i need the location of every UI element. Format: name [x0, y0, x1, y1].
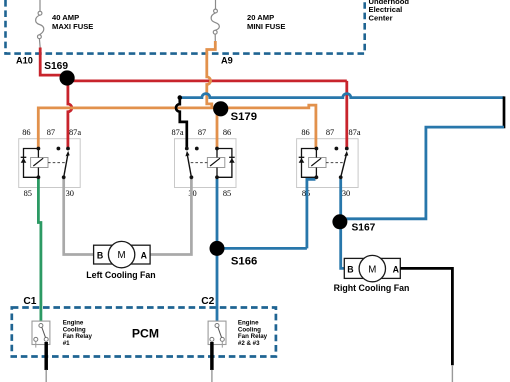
wire gray continuation bottom right [451, 365, 453, 382]
relay K1 box [19, 139, 80, 188]
wire orange bus relay K1 86 to relay K3 86 [38, 105, 316, 148]
svg-text:S166: S166 [231, 255, 257, 267]
splice S166 [210, 241, 225, 256]
wire gray continuation bottom left [45, 370, 47, 382]
relay K2 pin dots [185, 147, 219, 180]
relay K3 coil [309, 149, 326, 178]
svg-text:87: 87 [198, 128, 206, 137]
svg-text:86: 86 [22, 128, 30, 137]
relay K2 diode [217, 149, 235, 178]
svg-text:MINI FUSE: MINI FUSE [247, 22, 285, 31]
wire red down to relay K3 pin 87a [345, 81, 348, 149]
svg-text:20 AMP: 20 AMP [247, 13, 274, 22]
wire black link at right edge [503, 96, 506, 128]
svg-text:86: 86 [223, 128, 231, 137]
wire orange from fuse F2 to S179 (hop over red bus) [207, 41, 216, 108]
svg-text:C2: C2 [201, 296, 214, 307]
svg-text:#1: #1 [63, 340, 70, 347]
splice S169 [60, 70, 75, 85]
svg-text:Center: Center [369, 14, 393, 23]
svg-text:87a: 87a [348, 128, 360, 137]
svg-text:87: 87 [47, 128, 55, 137]
wire red bus S169 to right [67, 80, 347, 83]
wire blue relay K2 pin 85 through S166 to PCM C2 [216, 179, 219, 324]
relay K3 pin dots [315, 147, 349, 180]
wire black PCM C2 output to ground [210, 342, 214, 370]
svg-text:Left Cooling Fan: Left Cooling Fan [86, 270, 155, 280]
svg-text:Right Cooling Fan: Right Cooling Fan [334, 283, 410, 293]
svg-text:B: B [97, 250, 103, 260]
junction dot on blue bus [178, 95, 183, 100]
wire blue S166 horizontal [217, 247, 307, 250]
fuse F2 20 AMP MINI FUSE [211, 0, 219, 42]
relay K2 pin labels [171, 128, 231, 198]
underhood electrical center dashed enclosure [6, 0, 365, 54]
svg-text:C1: C1 [23, 296, 36, 307]
wire black from blue bus to relay K2 pin 87a (hop over orange) [176, 98, 187, 149]
wire orange drop to relay K2 pin 86 [216, 108, 219, 149]
value label 20 AMP MINI FUSE [247, 13, 285, 31]
svg-text:M: M [117, 250, 125, 261]
relay K2 coil [207, 149, 224, 178]
wire black right fan A to ground drop [400, 268, 452, 365]
value label 40 AMP MAXI FUSE [52, 13, 93, 31]
svg-text:S179: S179 [231, 111, 257, 123]
svg-text:40 AMP: 40 AMP [52, 13, 79, 22]
svg-text:87a: 87a [69, 128, 81, 137]
wire red from fuse F1 to S169 [40, 48, 66, 76]
label Engine Cooling Fan Relay #2 & #3 [238, 319, 268, 347]
svg-text:86: 86 [301, 128, 309, 137]
wire blue relay K3 pin 30 through S167 to right fan B [341, 179, 345, 268]
svg-text:85: 85 [223, 189, 231, 198]
svg-text:87: 87 [326, 128, 334, 137]
wire gray continuation bottom middle [211, 370, 213, 382]
PCM connector C1 (engine cooling fan relay 1 driver) [32, 321, 50, 348]
svg-text:87a: 87a [171, 128, 183, 137]
svg-text:85: 85 [24, 189, 32, 198]
label Underhood Electrical Center [369, 0, 410, 23]
svg-text:PCM: PCM [132, 327, 159, 341]
right cooling fan motor M2 [344, 255, 400, 281]
svg-text:30: 30 [342, 189, 350, 198]
wire blue relay K3 pin 85 down to S166 bus [307, 179, 316, 248]
PCM connector C2 (engine cooling fan relay 2-3 driver) [208, 321, 226, 348]
svg-text:S167: S167 [352, 222, 376, 233]
relay K3 switch arm [326, 151, 348, 177]
svg-text:A10: A10 [16, 56, 33, 66]
svg-text:#2 & #3: #2 & #3 [238, 340, 260, 347]
svg-text:30: 30 [66, 189, 74, 198]
relay K1 pin dots [37, 147, 70, 180]
relay K3 box [297, 139, 359, 188]
relay K2 switch arm [185, 151, 207, 177]
relay K3 pin labels [301, 128, 361, 198]
wire gray relay K1 pin 30 to left fan B [64, 179, 93, 255]
svg-text:A: A [393, 264, 400, 274]
PCM dashed enclosure [12, 308, 276, 357]
svg-text:A: A [141, 250, 148, 260]
splice S167 [332, 214, 347, 229]
relay K1 pin labels [22, 128, 81, 198]
splice S179 [213, 101, 228, 116]
relay K1 diode [21, 149, 39, 178]
svg-text:S169: S169 [44, 61, 68, 72]
svg-text:MAXI FUSE: MAXI FUSE [52, 22, 93, 31]
wire blue right side down to S167 [341, 127, 504, 219]
svg-text:A9: A9 [221, 56, 233, 66]
relay K1 coil [31, 149, 48, 178]
wire gray relay K2 pin 30 to left fan A [151, 179, 192, 255]
left cooling fan motor M1 [94, 241, 151, 267]
svg-text:M: M [368, 264, 376, 275]
label Engine Cooling Fan Relay #1 [63, 319, 93, 347]
fuse F1 40 AMP MAXI FUSE [36, 0, 44, 48]
relay K3 diode [299, 149, 317, 178]
relay K1 switch arm [48, 151, 70, 177]
wire blue bus (hops over orange and red verticals) [180, 94, 504, 98]
wire green relay K1 pin 85 to PCM C1 [38, 179, 41, 324]
svg-text:B: B [347, 264, 353, 274]
wire red S169 down to relay K1 pin 87a (hop over orange) [68, 82, 72, 149]
wire black PCM C1 output to ground [44, 342, 48, 370]
relay K2 box [175, 139, 237, 188]
